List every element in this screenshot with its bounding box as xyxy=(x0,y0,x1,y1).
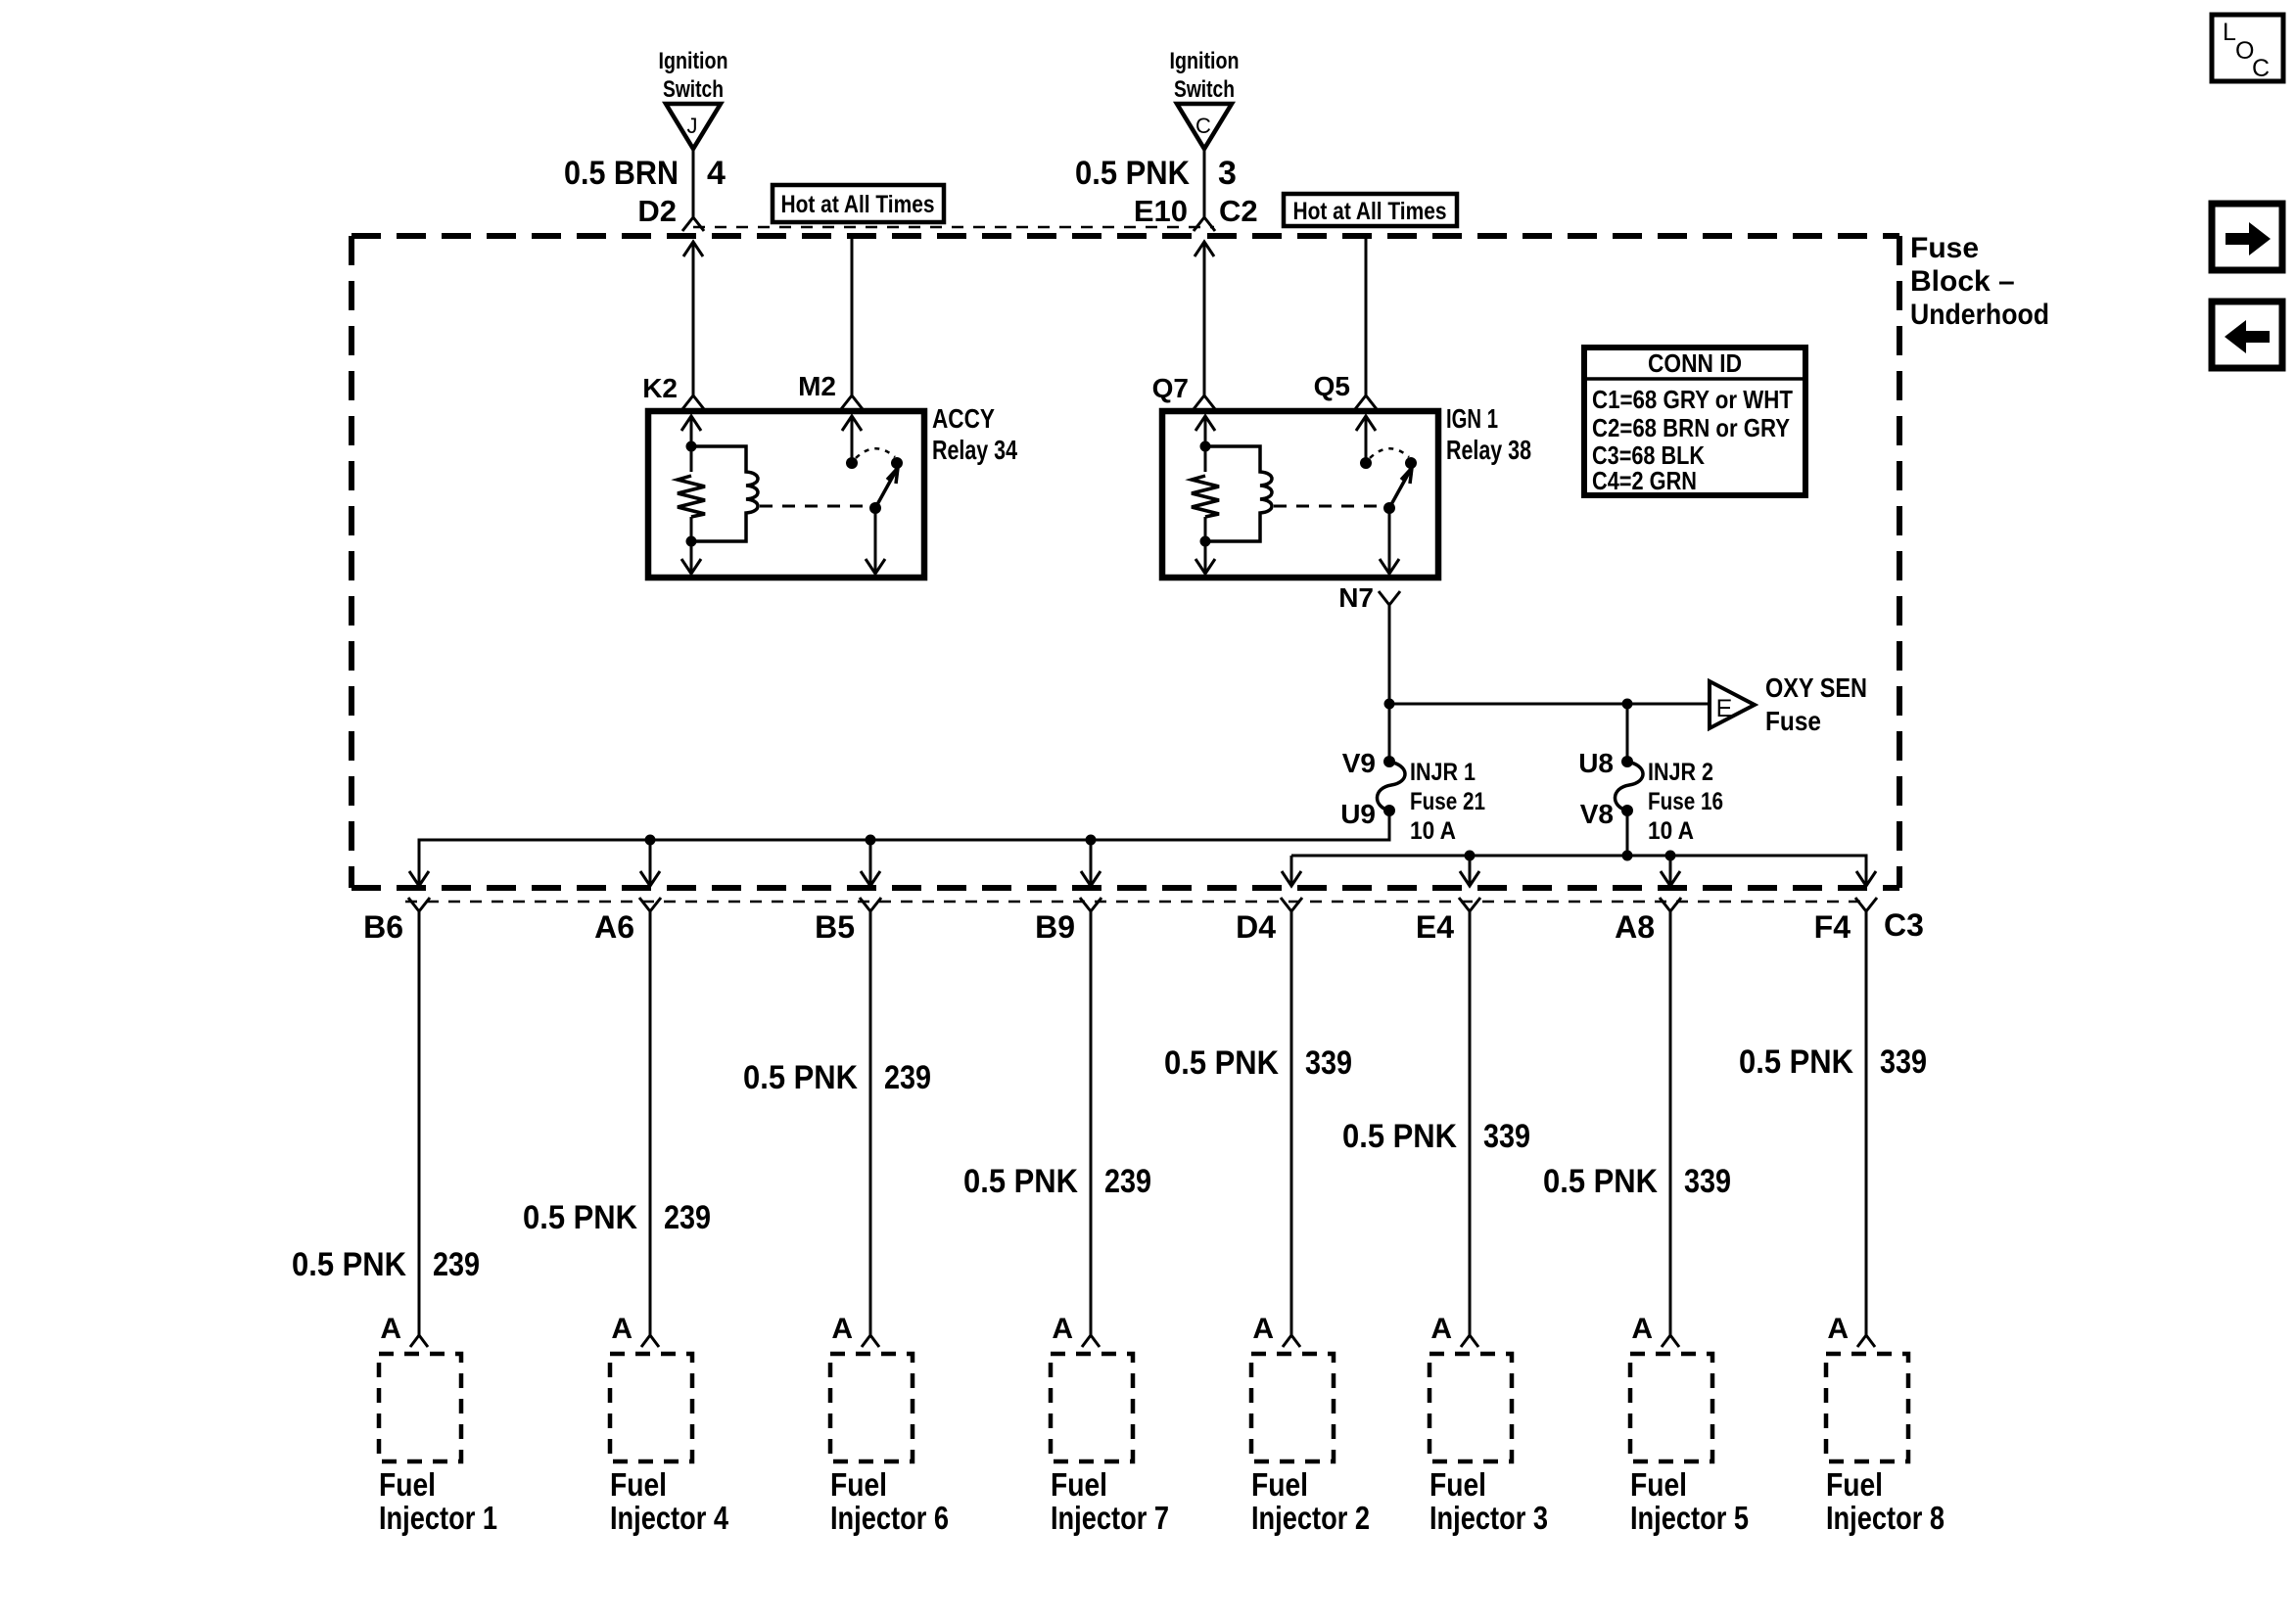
wire Q5 from boundary to IGN 1 relay xyxy=(1314,236,1377,409)
svg-text:Q7: Q7 xyxy=(1152,373,1189,403)
svg-text:Relay 34: Relay 34 xyxy=(932,435,1017,465)
svg-text:Fuel: Fuel xyxy=(1251,1466,1308,1503)
svg-text:Q5: Q5 xyxy=(1314,371,1350,401)
svg-text:CONN ID: CONN ID xyxy=(1648,348,1742,378)
svg-text:U8: U8 xyxy=(1578,748,1614,778)
relay fixed contact xyxy=(891,457,903,469)
svg-text:A: A xyxy=(1252,1313,1274,1345)
svg-text:A: A xyxy=(611,1313,633,1345)
wire from triangle C to fuse block, terminal E10 xyxy=(1075,149,1258,231)
svg-text:Fuel: Fuel xyxy=(1051,1466,1107,1503)
wire N7 from IGN 1 relay common xyxy=(1338,582,1400,762)
bus from INJR 2 fuse (feeds D4 E4 A8 F4) xyxy=(1282,811,1876,886)
svg-text:E: E xyxy=(1716,695,1733,722)
svg-text:Fuel: Fuel xyxy=(1630,1466,1687,1503)
svg-text:0.5 PNK: 0.5 PNK xyxy=(1164,1044,1279,1082)
svg-text:V8: V8 xyxy=(1580,799,1614,829)
svg-text:239: 239 xyxy=(664,1199,711,1236)
svg-text:339: 339 xyxy=(1684,1163,1731,1200)
svg-text:Injector 7: Injector 7 xyxy=(1051,1500,1169,1536)
svg-text:E4: E4 xyxy=(1416,909,1454,945)
svg-text:239: 239 xyxy=(433,1246,480,1283)
wire B6 to Fuel Injector 1 xyxy=(292,898,480,1347)
svg-text:A: A xyxy=(1827,1313,1849,1345)
svg-text:Fuse: Fuse xyxy=(1910,232,1979,264)
svg-text:Ignition: Ignition xyxy=(1170,48,1240,74)
svg-text:Fuse 21: Fuse 21 xyxy=(1410,788,1485,815)
bus branch at x=1501 xyxy=(1460,851,1479,887)
svg-text:0.5 PNK: 0.5 PNK xyxy=(523,1199,637,1236)
Fuel Injector 3 (dashed box) xyxy=(1429,1354,1548,1536)
svg-text:OXY SEN: OXY SEN xyxy=(1765,672,1867,703)
svg-text:K2: K2 xyxy=(642,373,678,403)
relay common wire xyxy=(1380,508,1399,574)
svg-text:Injector 6: Injector 6 xyxy=(830,1500,949,1536)
svg-text:A: A xyxy=(1631,1313,1653,1345)
svg-text:A: A xyxy=(1430,1313,1452,1345)
svg-text:C2=68 BRN or GRY: C2=68 BRN or GRY xyxy=(1592,413,1790,442)
Fuel Injector 1 (dashed box) xyxy=(379,1354,497,1536)
svg-text:0.5 PNK: 0.5 PNK xyxy=(292,1246,406,1283)
Fuel Injector 7 (dashed box) xyxy=(1051,1354,1169,1536)
svg-text:0.5 PNK: 0.5 PNK xyxy=(1739,1043,1853,1081)
Hot at All Times box (left) xyxy=(773,185,944,222)
wire E10 to relay terminal Q7 xyxy=(1152,242,1215,409)
svg-text:ACCY: ACCY xyxy=(932,403,995,434)
bus branch at x=1706 xyxy=(1661,851,1680,887)
relay coil feed wire xyxy=(681,416,701,472)
svg-text:Injector 1: Injector 1 xyxy=(379,1500,497,1536)
Fuel Injector 6 (dashed box) xyxy=(830,1354,949,1536)
svg-text:0.5 PNK: 0.5 PNK xyxy=(1075,155,1190,192)
svg-text:C3: C3 xyxy=(1884,907,1924,943)
svg-text:10 A: 10 A xyxy=(1410,817,1456,845)
svg-text:C4=2 GRN: C4=2 GRN xyxy=(1592,466,1697,495)
svg-text:Fuel: Fuel xyxy=(1826,1466,1883,1503)
relay pilot contact wire xyxy=(1356,416,1376,469)
svg-text:Injector 3: Injector 3 xyxy=(1429,1500,1548,1536)
svg-text:10 A: 10 A xyxy=(1648,817,1694,845)
relay contact travel arc (dashed) xyxy=(856,448,895,458)
svg-text:F4: F4 xyxy=(1814,909,1851,945)
label: Fuse Block - Underhood xyxy=(1910,232,2049,331)
svg-text:339: 339 xyxy=(1305,1044,1352,1082)
svg-text:239: 239 xyxy=(1104,1163,1151,1200)
svg-text:Switch: Switch xyxy=(1174,76,1235,103)
svg-text:Relay 38: Relay 38 xyxy=(1446,435,1531,465)
svg-text:239: 239 xyxy=(884,1059,931,1096)
svg-text:L: L xyxy=(2223,19,2236,46)
svg-text:Injector 8: Injector 8 xyxy=(1826,1500,1945,1536)
svg-text:Underhood: Underhood xyxy=(1910,299,2049,331)
relay common wire xyxy=(866,508,885,574)
svg-text:A8: A8 xyxy=(1615,909,1655,945)
CONN ID legend box xyxy=(1584,348,1805,495)
svg-text:Fuel: Fuel xyxy=(610,1466,667,1503)
fuse INJR 2 Fuse 16 10 A (U8/V8) xyxy=(1578,748,1723,845)
relay coil winding xyxy=(1205,446,1272,541)
svg-text:B6: B6 xyxy=(363,909,403,945)
svg-text:U9: U9 xyxy=(1340,799,1376,829)
relay coil return wire xyxy=(681,517,701,574)
relay coil winding xyxy=(691,446,758,541)
svg-text:INJR 1: INJR 1 xyxy=(1410,759,1476,786)
Fuel Injector 2 (dashed box) xyxy=(1251,1354,1370,1536)
relay box ACCY Relay 34 xyxy=(648,411,924,578)
LOC legend symbol xyxy=(2212,15,2283,82)
Ignition Switch connector triangle J xyxy=(659,48,728,149)
svg-text:D4: D4 xyxy=(1236,909,1276,945)
svg-text:IGN 1: IGN 1 xyxy=(1446,403,1498,434)
svg-text:3: 3 xyxy=(1218,155,1237,192)
svg-text:D2: D2 xyxy=(637,194,677,228)
connector C2 dashed line (top) xyxy=(693,226,1214,229)
wire to OXY SEN fuse xyxy=(1389,699,1710,710)
svg-text:B9: B9 xyxy=(1035,909,1075,945)
svg-text:C2: C2 xyxy=(1219,194,1258,228)
back arrow symbol xyxy=(2212,301,2282,368)
svg-text:0.5 PNK: 0.5 PNK xyxy=(963,1163,1078,1200)
svg-text:0.5 BRN: 0.5 BRN xyxy=(564,155,679,192)
svg-text:C: C xyxy=(1195,114,1211,138)
relay actuation link (dashed) xyxy=(760,505,869,508)
relay coil suppression resistor xyxy=(1192,476,1219,517)
Fuel Injector 4 (dashed box) xyxy=(610,1354,729,1536)
svg-text:Hot at All Times: Hot at All Times xyxy=(1293,198,1447,225)
wire M2 from boundary to ACCY relay xyxy=(798,236,863,409)
node: junction to INJR 2 fuse branch xyxy=(1622,699,1633,710)
fuse block boundary (dashed) xyxy=(351,236,1899,888)
Ignition Switch connector triangle C xyxy=(1170,48,1240,149)
wire D2 to relay terminal K2 xyxy=(642,242,704,409)
forward arrow symbol xyxy=(2212,204,2282,270)
relay pilot contact wire xyxy=(842,416,862,469)
relay actuation link (dashed) xyxy=(1274,505,1383,508)
svg-text:A: A xyxy=(380,1313,401,1345)
relay armature (switch arm) xyxy=(869,468,898,514)
branch wire to INJR 2 fuse xyxy=(1626,704,1629,762)
wire F4 to Fuel Injector 8 xyxy=(1739,898,1927,1347)
svg-text:E10: E10 xyxy=(1134,194,1188,228)
svg-text:Fuse 16: Fuse 16 xyxy=(1648,788,1723,815)
svg-text:J: J xyxy=(687,114,698,138)
svg-text:0.5 PNK: 0.5 PNK xyxy=(743,1059,858,1096)
svg-text:Fuel: Fuel xyxy=(830,1466,887,1503)
svg-text:M2: M2 xyxy=(798,371,836,401)
svg-text:339: 339 xyxy=(1483,1118,1530,1155)
bus branch at x=1114 xyxy=(1081,835,1101,887)
svg-text:Hot at All Times: Hot at All Times xyxy=(781,191,935,218)
svg-text:Switch: Switch xyxy=(663,76,724,103)
svg-text:0.5 PNK: 0.5 PNK xyxy=(1342,1118,1457,1155)
svg-text:A: A xyxy=(1052,1313,1073,1345)
wire B9 to Fuel Injector 7 xyxy=(963,898,1151,1347)
wire A8 to Fuel Injector 5 xyxy=(1543,898,1731,1347)
svg-text:A6: A6 xyxy=(594,909,634,945)
svg-text:A: A xyxy=(831,1313,853,1345)
svg-text:Injector 5: Injector 5 xyxy=(1630,1500,1749,1536)
svg-text:N7: N7 xyxy=(1338,582,1374,613)
svg-text:Injector 2: Injector 2 xyxy=(1251,1500,1370,1536)
svg-text:4: 4 xyxy=(707,155,726,192)
relay coil feed wire xyxy=(1195,416,1215,472)
relay coil suppression resistor xyxy=(678,476,705,517)
svg-text:Fuse: Fuse xyxy=(1765,706,1821,736)
svg-text:Fuel: Fuel xyxy=(379,1466,436,1503)
Fuel Injector 8 (dashed box) xyxy=(1826,1354,1945,1536)
fuse INJR 1 Fuse 21 10 A (V9/U9) xyxy=(1340,748,1485,845)
relay box IGN 1 Relay 38 xyxy=(1162,411,1438,578)
relay contact travel arc (dashed) xyxy=(1370,448,1409,458)
Hot at All Times box (right) xyxy=(1284,194,1457,226)
bus branch at x=889 xyxy=(861,835,880,887)
svg-text:Ignition: Ignition xyxy=(659,48,728,74)
node: junction to OXY SEN fuse feed xyxy=(1384,699,1395,710)
svg-text:339: 339 xyxy=(1880,1043,1927,1081)
wire B5 to Fuel Injector 6 xyxy=(743,898,931,1347)
wire D4 to Fuel Injector 2 xyxy=(1164,898,1352,1347)
svg-text:V9: V9 xyxy=(1342,748,1376,778)
svg-text:B5: B5 xyxy=(815,909,855,945)
bus branch at x=664 xyxy=(640,835,660,887)
wire E4 to Fuel Injector 3 xyxy=(1342,898,1530,1347)
wire from triangle J to fuse block, terminal D2 xyxy=(564,149,726,231)
svg-text:0.5 PNK: 0.5 PNK xyxy=(1543,1163,1658,1200)
svg-text:Injector 4: Injector 4 xyxy=(610,1500,729,1536)
svg-text:C: C xyxy=(2252,55,2270,82)
bus from INJR 1 fuse (feeds B6 A6 B5 B9) xyxy=(409,811,1389,886)
relay fixed contact xyxy=(1405,457,1417,469)
OXY SEN Fuse off-page connector E xyxy=(1710,672,1867,736)
relay armature (switch arm) xyxy=(1383,468,1412,514)
wire A6 to Fuel Injector 4 xyxy=(523,898,711,1347)
Fuel Injector 5 (dashed box) xyxy=(1630,1354,1749,1536)
svg-text:Fuel: Fuel xyxy=(1429,1466,1486,1503)
relay coil return wire xyxy=(1195,517,1215,574)
svg-text:INJR 2: INJR 2 xyxy=(1648,759,1713,786)
svg-text:C1=68 GRY or WHT: C1=68 GRY or WHT xyxy=(1592,385,1793,414)
svg-text:Block –: Block – xyxy=(1910,265,2015,298)
connector C3 dashed line (bottom) xyxy=(405,901,1868,904)
